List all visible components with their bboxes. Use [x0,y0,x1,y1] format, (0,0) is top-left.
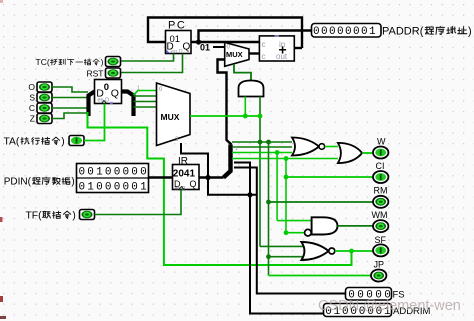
svg-text:c: c [262,40,266,49]
wire V4 vertical [285,159,287,233]
svg-text:CSDN @element-wen: CSDN @element-wen [318,298,461,314]
wire S to splitter [52,97,88,99]
node IR Q junction [205,175,210,180]
node XNOR in2 junction [266,254,271,259]
wire to FS [234,168,346,294]
svg-text:MUX: MUX [226,50,243,59]
pin TC input [36,57,121,68]
wire splitter to MUX in0 [134,91,157,96]
pin TF input [26,210,95,222]
svg-text:0: 0 [78,181,85,193]
wire C to splitter [52,107,88,109]
pin RM output [373,186,388,208]
wire NAND input 2 [286,232,305,234]
wire NAND input 1 [277,220,312,222]
pin RST input [87,68,121,79]
wire XNOR input 2 [269,256,305,258]
svg-text:0: 0 [122,181,129,193]
wire NOR1 to OR1 [325,146,338,148]
splitter flags split [122,92,134,117]
multiplexer MUX2 (condition select) [157,83,191,146]
svg-text:0: 0 [105,167,112,179]
gate OR1 [338,143,362,163]
wire V2 vertical [268,142,270,276]
wire AND output to MUX1 select [234,64,251,81]
svg-text:1: 1 [235,146,238,152]
svg-text:TA(: TA( [4,137,20,148]
wire splitter out w2 [232,146,292,148]
svg-text:CI: CI [376,161,385,171]
svg-text:TF(: TF( [26,211,43,222]
svg-text:0: 0 [105,181,112,193]
svg-text:0: 0 [361,26,368,38]
node AND input junction [243,114,248,119]
svg-text:0: 0 [345,26,352,38]
svg-text:2041: 2041 [173,169,196,180]
svg-text:PADDR(: PADDR( [382,26,424,38]
svg-text:Q: Q [190,179,197,189]
wire AND1 input A [244,97,246,117]
wire V3 vertical [276,153,278,221]
svg-text:PDIN(: PDIN( [4,177,32,188]
wire PC Q to PADDR [191,31,312,43]
gate AND1 [239,81,264,97]
wire MUX2 select from IR [181,143,208,178]
svg-text:0: 0 [114,181,121,193]
wire Z to splitter [52,113,88,119]
wire TF to IR clock [95,190,182,215]
svg-text:RM: RM [374,186,388,196]
edge marks [0,217,3,222]
svg-text:WM: WM [372,210,388,220]
wire V1 branch junctions [258,140,263,145]
wire MUX2 output [190,115,260,117]
wire IR low bits down [208,178,257,195]
svg-text:Z: Z [30,114,35,124]
node w4 V4 [284,156,289,161]
wire TC to PC clock [121,54,174,62]
svg-text:0: 0 [104,82,109,93]
svg-text:W: W [377,137,386,147]
svg-text:1: 1 [137,86,140,92]
svg-text:1: 1 [96,167,103,179]
wire crossing flag to SF line [88,112,352,265]
wire splitter out w3 [232,152,292,154]
svg-text:1: 1 [140,181,147,193]
wire NAND1 to WM [338,225,374,227]
svg-text:01: 01 [200,43,210,53]
pin WM output [372,210,389,232]
svg-text:0: 0 [353,26,360,38]
svg-text:0: 0 [87,167,94,179]
svg-text:Q: Q [111,88,119,100]
svg-text:MUX: MUX [161,112,180,122]
output ADDRIM [324,304,431,318]
splitter flags merge [89,92,95,117]
wire RST to PC enable [121,54,183,73]
svg-text:): ) [101,57,104,67]
wire PC Q to adder input [199,41,260,43]
pin C input [29,103,52,113]
svg-text:0: 0 [321,26,328,38]
svg-text:0: 0 [131,181,138,193]
wire IR Q output [199,176,224,178]
register IR [173,156,200,192]
node RM junction [266,200,271,205]
svg-text:RST: RST [87,69,104,79]
svg-text:0: 0 [78,167,85,179]
register DFF condition flags [95,80,122,105]
wire splitter to MUX in1 [134,95,157,97]
gate NAND1 [305,217,338,236]
adder U+ [259,35,294,61]
splitter IR bits [224,145,231,178]
svg-text:O: O [28,82,35,92]
input PDIN (program data) [4,164,149,194]
wire splitter out w4 to OR input [232,158,338,160]
svg-text:0: 0 [122,167,129,179]
node PC Q junction [196,39,201,44]
node V2 start [266,140,271,145]
svg-text:JP: JP [374,260,385,270]
wire OR1 to W [362,152,373,154]
svg-text:Q: Q [183,42,191,53]
wire constant 01 to MUX1 [213,46,225,48]
svg-text:C: C [29,103,35,113]
svg-text:SF: SF [375,235,387,245]
node MUX2 out junction [258,114,263,119]
multiplexer MUX1 (PC source select) [225,42,249,66]
svg-text:0: 0 [131,167,138,179]
svg-text:1: 1 [369,26,376,38]
output PADDR (program address) [312,24,472,38]
node CI junction [284,175,289,180]
svg-text:): ) [468,26,472,38]
node NAND in junction [284,230,289,235]
svg-text:+: + [279,42,287,58]
node w3 V3 [275,150,280,155]
pin TA input value 1 [4,136,85,148]
wire O to splitter [52,87,88,92]
gate NOR1 [292,138,325,156]
wire top feedback loop adder to PC [148,18,302,49]
pin CI output [373,161,388,183]
wire MUX1 input1 from IR bus [218,60,232,145]
svg-text:0: 0 [114,167,121,179]
wire JP line [269,275,372,277]
wire MUX1 output to adder input [249,52,259,54]
svg-text:c: c [262,52,266,61]
svg-text:): ) [61,137,64,148]
wire XNOR1 to SF [335,250,373,252]
svg-text:): ) [71,177,74,188]
svg-text:0: 0 [329,26,336,38]
svg-text:1: 1 [87,181,94,193]
node SF junction [349,249,354,254]
pin S input [29,93,52,103]
svg-text:en D: en D [98,98,110,104]
wire CI line [286,176,373,178]
svg-text:0: 0 [337,26,344,38]
svg-text:): ) [72,211,75,222]
pin SF output [373,235,388,256]
svg-text:0: 0 [313,26,320,38]
wire TA to DFF clock [84,104,105,141]
svg-text:0: 0 [96,181,103,193]
svg-text:0: 0 [140,167,147,179]
svg-text:TC(: TC( [36,57,50,67]
wire XNOR input 1 [260,245,303,247]
gate XNOR1 [301,242,334,260]
wire to ADDRIM [234,163,324,314]
wire splitter to MUX in2 [134,101,157,103]
register PC [166,20,192,56]
wire PDIN to IR [149,176,173,178]
svg-text:S: S [29,93,35,103]
wire splitter to MUX in3 [134,106,157,108]
pin W output [373,137,388,159]
pin JP output [371,260,386,282]
output FS [346,288,405,302]
pin O input [28,82,52,92]
wire RM line [269,201,374,203]
wire AND1 input B [259,97,261,247]
wire splitter out w1 [232,141,292,143]
pin Z input [30,114,52,124]
node bus junction [247,192,252,197]
wire adder output [294,47,302,49]
